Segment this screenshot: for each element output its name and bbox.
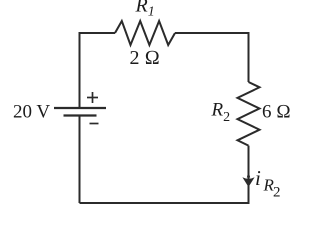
battery V1: long positive plate [54, 107, 106, 109]
svg-text:R1: R1 [135, 0, 155, 20]
svg-text:R2: R2 [211, 100, 231, 126]
svg-text:2 Ω: 2 Ω [130, 47, 160, 69]
wire: top-left segment from battery plus plate up and right to R1 [80, 33, 116, 108]
wire: top-right segment from R1 to top-right corner, down to R2 [175, 33, 249, 82]
wire: bottom-left vertical from battery minus plate to bottom wire [79, 116, 81, 204]
current arrow iR2 (arrowhead on right wire) [242, 177, 254, 187]
svg-text:6 Ω: 6 Ω [262, 102, 291, 123]
battery minus sign [90, 123, 99, 125]
svg-text:i: i [255, 166, 261, 190]
wire: right segment below R2 down to bottom-right corner and bottom wire [80, 146, 249, 203]
svg-text:2: 2 [273, 184, 281, 200]
resistor R2 (zigzag, right wire, vertical) [238, 82, 260, 146]
battery V1: short negative plate [64, 114, 97, 116]
resistor R1 (zigzag, top wire) [115, 21, 175, 45]
svg-text:20 V: 20 V [13, 102, 50, 123]
battery plus sign [87, 92, 98, 103]
